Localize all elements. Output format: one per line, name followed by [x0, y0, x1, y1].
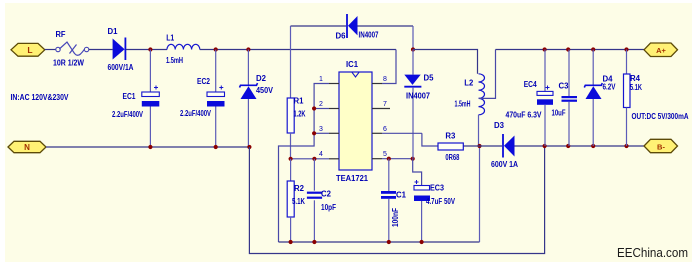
label R1: [294, 97, 305, 106]
svg-text:8: 8: [383, 76, 387, 83]
pin 5: [372, 151, 387, 159]
svg-text:4.7uF 50V: 4.7uF 50V: [426, 197, 456, 206]
label D4: [603, 75, 614, 84]
pin 1: [319, 76, 339, 84]
node junction EC1/top rail: [148, 47, 152, 51]
node junction D4/bottom rail: [591, 144, 595, 148]
svg-text:100nF: 100nF: [391, 208, 400, 227]
value label 1.5mH (L2): [455, 100, 471, 109]
value label 10pF: [321, 203, 336, 212]
node junction D4/top: [591, 47, 595, 51]
value label 10uF: [552, 109, 566, 118]
diode D6: [291, 14, 414, 38]
value label 450V: [256, 86, 274, 95]
wire pins 1-2-3 ground bus: [279, 84, 330, 243]
wire pin5 jog to EC3: [413, 159, 422, 185]
connector L: [11, 43, 45, 56]
svg-text:EC4: EC4: [524, 80, 537, 89]
inductor L2: [479, 74, 485, 146]
capacitor EC1: [142, 50, 160, 148]
value label 2.2uF/400V (EC2): [180, 109, 211, 118]
value label 600V/1A: [108, 63, 134, 72]
node junction pin2/bus: [312, 106, 316, 110]
wire bottom rail up to output junction: [479, 146, 481, 242]
svg-text:1: 1: [319, 76, 323, 83]
value label 5.1K (R2): [292, 197, 305, 206]
wire N loop to output return: [249, 146, 544, 254]
svg-text:7: 7: [383, 101, 387, 108]
capacitor EC3: [414, 180, 430, 242]
svg-text:5.1K: 5.1K: [630, 83, 642, 92]
svg-text:N: N: [24, 143, 30, 152]
value label 100nF (vertical): [391, 208, 400, 227]
node junction output mid: [477, 144, 481, 148]
zener diode D4: [584, 50, 602, 147]
label D6: [336, 32, 347, 41]
node junction switch node: [411, 47, 415, 51]
svg-text:A+: A+: [656, 46, 666, 55]
wire pin 3 to bus: [314, 132, 329, 134]
svg-text:450V: 450V: [256, 86, 274, 95]
value label 600V 1A: [491, 160, 518, 169]
label EC1: [123, 92, 136, 101]
resistor R4: [624, 50, 631, 147]
node junction C3/top: [566, 47, 570, 51]
value label IN4007 (D6): [359, 31, 379, 40]
label D3: [494, 121, 505, 130]
capacitor EC4: [537, 50, 553, 147]
label C1: [396, 191, 407, 200]
svg-text:2.2uF/400V: 2.2uF/400V: [112, 110, 143, 119]
svg-text:IN4007: IN4007: [406, 92, 431, 101]
svg-text:IN:AC 120V&230V: IN:AC 120V&230V: [11, 93, 70, 102]
pin 7: [372, 101, 390, 109]
wire corner to IC pin 8: [382, 50, 396, 84]
label TEA1721: [336, 174, 369, 183]
capacitor C2: [307, 159, 322, 242]
wire L to fuse RF: [45, 49, 56, 51]
diode D1: [113, 38, 126, 61]
value label 1.2K: [294, 110, 306, 119]
node junction R2/bottom: [289, 240, 293, 244]
svg-text:5.1K: 5.1K: [292, 197, 305, 206]
svg-text:D1: D1: [108, 27, 119, 36]
svg-text:2: 2: [319, 101, 323, 108]
wire N rail: [46, 146, 249, 148]
node junction D2/top rail: [246, 47, 250, 51]
svg-text:RF: RF: [56, 30, 66, 39]
wire output top rail: [496, 49, 645, 51]
label EC4: [524, 80, 537, 89]
svg-text:R4: R4: [630, 74, 641, 83]
svg-text:L1: L1: [166, 34, 174, 43]
svg-text:600V/1A: 600V/1A: [108, 63, 134, 72]
wire output junction to R3: [463, 145, 479, 147]
node junction C1/pin5: [387, 157, 391, 161]
wire switch node to L2: [413, 50, 478, 74]
svg-text:6.2V: 6.2V: [603, 83, 617, 92]
resistor R1: [287, 98, 294, 159]
node junction C3/bottom rail: [566, 144, 570, 148]
capacitor EC2: [207, 50, 225, 148]
value label 470uF 6.3V: [506, 111, 543, 120]
label R3: [445, 132, 456, 141]
capacitor C1: [381, 159, 396, 242]
svg-text:EEChina.com: EEChina.com: [617, 246, 688, 260]
svg-text:D2: D2: [256, 74, 267, 83]
node junction D5/pin5: [411, 157, 415, 161]
node junction EC1/N rail: [148, 145, 152, 149]
svg-text:1.2K: 1.2K: [294, 110, 306, 119]
diode D5: [404, 50, 421, 159]
value label 6.2V: [603, 83, 617, 92]
node junction pin3/bus: [312, 131, 316, 135]
svg-text:3: 3: [319, 126, 323, 133]
value label 2.2uF/400V: [112, 110, 143, 119]
value label 4.7uF 50V: [426, 197, 456, 206]
label R2: [294, 184, 305, 193]
label D2: [256, 74, 267, 83]
connector A+: [644, 43, 678, 57]
node junction R4/top: [624, 47, 628, 51]
wire D6 right down to switch node: [412, 26, 414, 50]
value label 5.1K (R4): [630, 83, 642, 92]
pin 8: [372, 76, 387, 84]
node junction EC2/top rail: [214, 47, 218, 51]
svg-text:5: 5: [383, 151, 387, 158]
svg-text:2.2uF/400V: 2.2uF/400V: [180, 109, 211, 118]
IC U1 TEA1721 body: [339, 72, 372, 170]
capacitor C3: [562, 50, 578, 147]
node junction C1/bottom: [387, 240, 391, 244]
node junction EC3/bottom: [420, 240, 424, 244]
label C3: [559, 82, 570, 91]
value label 0R68: [445, 153, 459, 162]
resistor R2: [287, 159, 294, 242]
svg-text:D6: D6: [336, 32, 347, 41]
svg-text:R3: R3: [445, 132, 456, 141]
svg-text:C3: C3: [559, 82, 570, 91]
label IC1: [346, 60, 359, 69]
svg-text:600V 1A: 600V 1A: [491, 160, 518, 169]
svg-text:470uF 6.3V: 470uF 6.3V: [506, 111, 543, 120]
svg-text:R2: R2: [294, 184, 305, 193]
wire L2 tap to output rail: [479, 50, 496, 99]
svg-text:EC2: EC2: [197, 77, 210, 86]
label EC2: [197, 77, 210, 86]
label RF: [56, 30, 66, 39]
connector B-: [644, 139, 678, 152]
value label IN4007 (D5): [406, 92, 431, 101]
svg-text:OUT:DC 5V/300mA: OUT:DC 5V/300mA: [632, 112, 689, 121]
node junction loop/EC4 bottom: [543, 144, 547, 148]
connector N: [8, 141, 46, 152]
label R4: [630, 74, 641, 83]
svg-text:R1: R1: [294, 97, 305, 106]
node junction R1/R2/pin4: [289, 157, 293, 161]
wire pin 4 row: [291, 158, 329, 160]
pin 2: [319, 101, 339, 109]
svg-text:4: 4: [319, 151, 323, 158]
svg-text:L2: L2: [464, 79, 474, 88]
label L1: [166, 34, 174, 43]
IC ground bottom rail: [279, 241, 480, 243]
svg-text:C2: C2: [321, 190, 332, 199]
svg-text:6: 6: [383, 126, 387, 133]
label L2: [464, 79, 474, 88]
svg-text:10pF: 10pF: [321, 203, 336, 212]
svg-text:10uF: 10uF: [552, 109, 566, 118]
svg-text:IN4007: IN4007: [359, 31, 379, 40]
node junction EC2/N rail: [214, 145, 218, 149]
node junction C2/bottom: [312, 240, 316, 244]
wire pin 6 to R3: [382, 132, 422, 134]
svg-text:10R 1/2W: 10R 1/2W: [53, 59, 84, 68]
svg-text:C1: C1: [396, 191, 407, 200]
svg-text:0R68: 0R68: [445, 153, 459, 162]
resistor R3: [422, 133, 463, 150]
label D5: [424, 74, 435, 83]
input label IN:AC 120V&230V: [11, 93, 70, 102]
diode D3: [480, 134, 645, 158]
wire pin 5 row: [382, 158, 413, 160]
label EC3: [430, 184, 444, 193]
value label 10R 1/2W: [53, 59, 84, 68]
pin 3: [319, 126, 339, 133]
node junction C2/pin4: [312, 157, 316, 161]
node junction R4/bottom rail: [624, 144, 628, 148]
node junction D2/N rail: [247, 145, 251, 149]
wire D1 to L1: [126, 49, 167, 51]
svg-text:TEA1721: TEA1721: [336, 174, 369, 183]
svg-text:EC3: EC3: [430, 184, 444, 193]
label C2: [321, 190, 332, 199]
wire pin 2 to bus: [314, 108, 329, 110]
fuse RF: [56, 42, 89, 55]
pin 4: [319, 151, 339, 159]
svg-text:1.5mH: 1.5mH: [166, 56, 183, 65]
svg-text:EC1: EC1: [123, 92, 136, 101]
svg-text:B-: B-: [657, 142, 665, 151]
zener diode D2: [240, 50, 258, 148]
svg-text:1.5mH: 1.5mH: [455, 100, 471, 109]
svg-text:D3: D3: [494, 121, 505, 130]
label D1: [108, 27, 119, 36]
wire L1 to pin8 corner: [200, 49, 396, 51]
wire fuse to D1: [89, 49, 113, 51]
svg-text:IC1: IC1: [346, 60, 359, 69]
pin 6: [372, 126, 387, 133]
wire D6 left to R1 top: [290, 26, 292, 98]
node junction EC4/top: [543, 47, 547, 51]
output label OUT:DC 5V/300mA: [632, 112, 689, 121]
svg-text:L: L: [27, 45, 32, 55]
inductor L1: [167, 44, 200, 49]
value label 1.5mH: [166, 56, 183, 65]
svg-text:D5: D5: [424, 74, 435, 83]
watermark EEChina.com: [617, 246, 688, 260]
